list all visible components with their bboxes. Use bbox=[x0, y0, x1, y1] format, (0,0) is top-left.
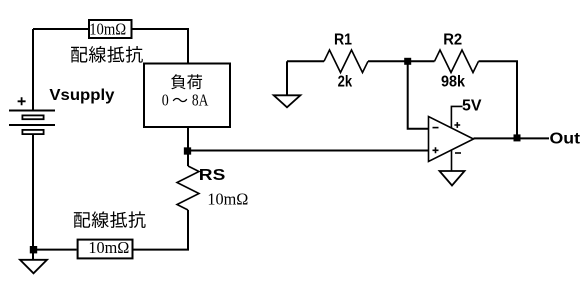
wire bottom box to left rail bbox=[33, 249, 77, 251]
svg-text:RS: RS bbox=[199, 167, 226, 184]
battery plus sign bbox=[18, 97, 26, 105]
svg-text:10mΩ: 10mΩ bbox=[89, 20, 126, 39]
wire top-left horizontal bbox=[33, 28, 88, 30]
svg-text:10mΩ: 10mΩ bbox=[88, 238, 129, 257]
resistor R1 bbox=[287, 60, 324, 62]
svg-text:10mΩ: 10mΩ bbox=[207, 190, 248, 209]
svg-text:98k: 98k bbox=[441, 74, 465, 91]
svg-text:R2: R2 bbox=[443, 32, 462, 49]
svg-text:Vsupply: Vsupply bbox=[49, 87, 114, 104]
node junction at ground bbox=[30, 246, 37, 253]
wire RS bottom bbox=[134, 210, 189, 250]
label 配線抵抗 (bottom) bbox=[74, 211, 146, 228]
node junction (sense node) bbox=[184, 147, 191, 154]
label 配線抵抗 (top) bbox=[71, 46, 143, 63]
op-amp power 5V bbox=[451, 106, 462, 128]
svg-text:8A: 8A bbox=[192, 91, 209, 110]
ground (op-amp) bbox=[440, 171, 465, 186]
wire sense node to op-amp + input bbox=[188, 150, 429, 152]
wire load bottom to RS bbox=[187, 128, 189, 166]
op-amp U1 bbox=[429, 117, 474, 162]
battery Vsupply bbox=[32, 29, 34, 111]
resistor R2 bbox=[435, 50, 479, 73]
resistor box 10mΩ bottom (wiring resistance) bbox=[78, 240, 133, 259]
svg-text:0: 0 bbox=[162, 91, 169, 110]
wire op-amp output to Out bbox=[474, 137, 550, 139]
node junction output bbox=[514, 134, 521, 141]
svg-text:Out: Out bbox=[550, 131, 581, 148]
resistor RS zigzag bbox=[177, 166, 199, 210]
load box 負荷 0~8A bbox=[144, 64, 230, 128]
svg-text:2k: 2k bbox=[338, 74, 353, 91]
wire junction to op-amp - input bbox=[408, 61, 429, 129]
svg-text:5V: 5V bbox=[462, 98, 482, 115]
node junction R1/R2 bbox=[404, 58, 411, 65]
svg-text:R1: R1 bbox=[334, 32, 352, 49]
resistor box 10mΩ top (wiring resistance) bbox=[89, 20, 132, 38]
wire from top box to load bbox=[132, 29, 189, 63]
ground (R1 left) bbox=[286, 61, 288, 95]
op-amp negative supply to ground bbox=[451, 150, 453, 171]
ground (battery negative) bbox=[32, 250, 34, 260]
